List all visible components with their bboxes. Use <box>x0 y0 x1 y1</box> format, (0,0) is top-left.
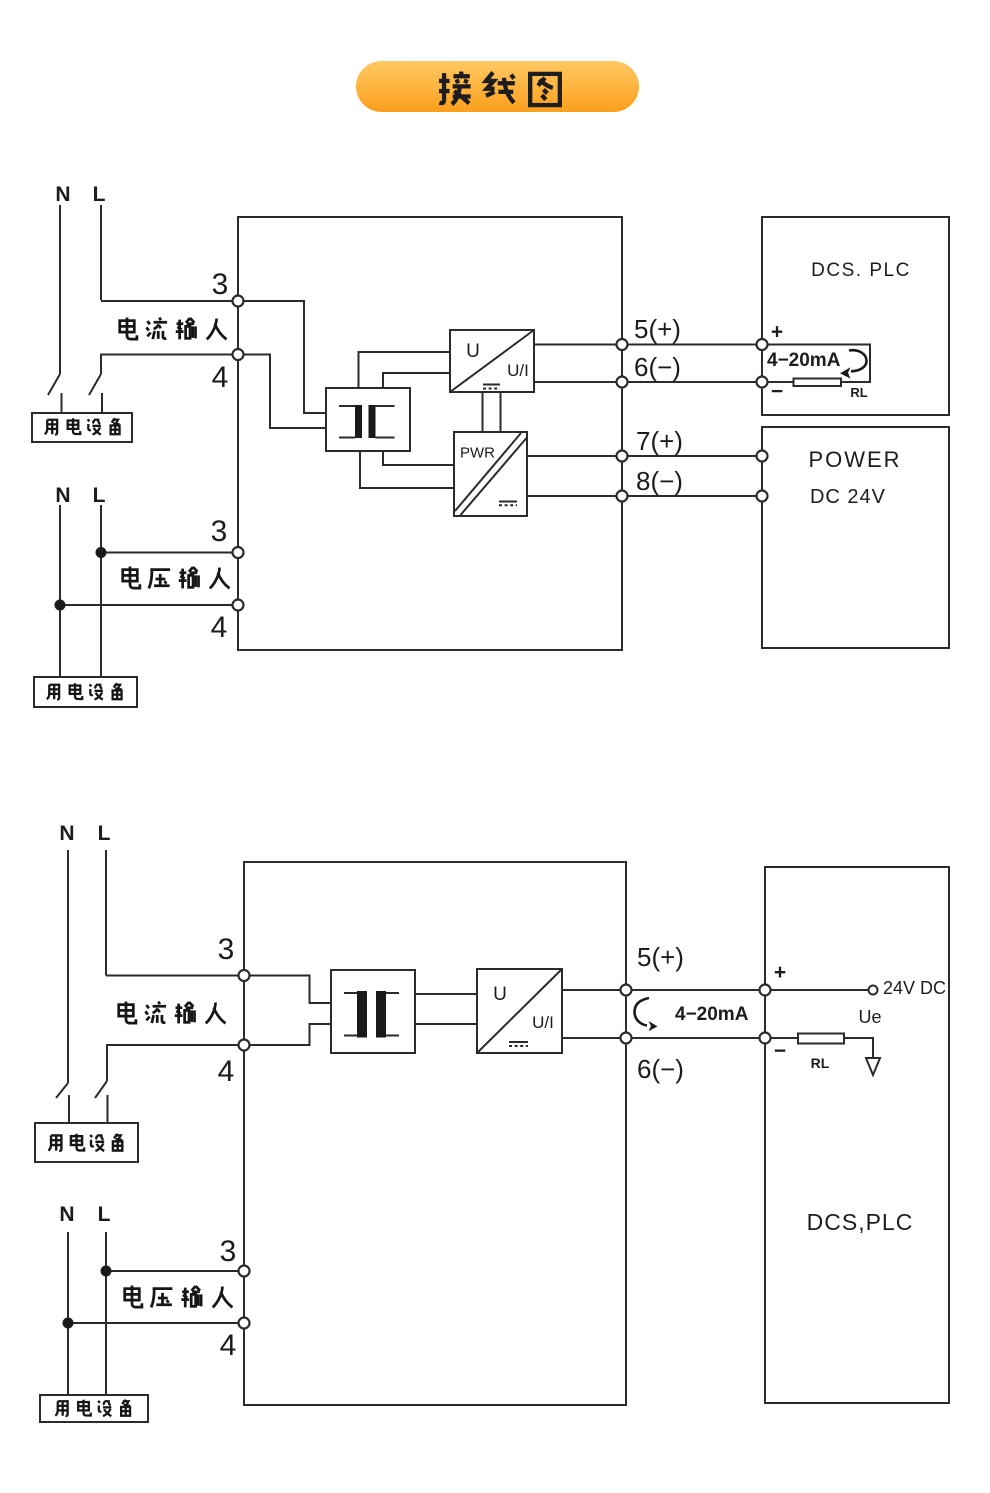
svg-text:6(−): 6(−) <box>637 1054 684 1084</box>
svg-text:L: L <box>98 822 111 845</box>
svg-text:DCS,PLC: DCS,PLC <box>807 1209 914 1235</box>
svg-text:N: N <box>59 822 74 845</box>
svg-text:4−20mA: 4−20mA <box>767 350 841 371</box>
svg-text:3: 3 <box>220 1235 237 1268</box>
svg-text:L: L <box>98 1203 111 1226</box>
svg-text:N: N <box>59 1203 74 1226</box>
svg-text:6(−): 6(−) <box>634 352 681 382</box>
svg-text:4: 4 <box>211 611 228 644</box>
svg-text:5(+): 5(+) <box>637 942 684 972</box>
svg-text:−: − <box>774 1040 786 1063</box>
svg-text:24V DC: 24V DC <box>883 978 946 998</box>
svg-text:8(−): 8(−) <box>636 466 683 496</box>
svg-text:+: + <box>771 321 783 344</box>
svg-text:3: 3 <box>218 933 235 966</box>
svg-text:L: L <box>93 484 106 507</box>
svg-text:5(+): 5(+) <box>634 314 681 344</box>
svg-text:RL: RL <box>811 1055 830 1071</box>
svg-text:PWR: PWR <box>460 445 495 462</box>
svg-text:Ue: Ue <box>858 1007 881 1027</box>
svg-text:DC 24V: DC 24V <box>810 486 886 508</box>
svg-text:U: U <box>466 341 480 362</box>
svg-text:U/I: U/I <box>507 361 529 380</box>
svg-text:4−20mA: 4−20mA <box>675 1004 749 1025</box>
svg-text:RL: RL <box>850 385 867 400</box>
svg-text:DCS. PLC: DCS. PLC <box>811 260 911 281</box>
svg-text:N: N <box>55 183 70 206</box>
svg-text:7(+): 7(+) <box>636 426 683 456</box>
svg-text:3: 3 <box>212 268 229 301</box>
svg-text:POWER: POWER <box>808 447 901 472</box>
svg-text:N: N <box>55 484 70 507</box>
svg-text:4: 4 <box>218 1055 235 1088</box>
svg-text:U/I: U/I <box>532 1013 554 1032</box>
svg-text:4: 4 <box>212 361 229 394</box>
svg-text:U: U <box>493 984 507 1005</box>
svg-text:3: 3 <box>211 515 228 548</box>
svg-text:+: + <box>774 961 786 984</box>
svg-text:−: − <box>771 380 783 403</box>
svg-text:L: L <box>93 183 106 206</box>
svg-text:4: 4 <box>220 1329 237 1362</box>
